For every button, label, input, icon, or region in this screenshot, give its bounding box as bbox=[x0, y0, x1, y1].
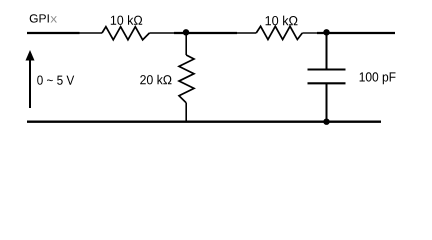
resistor R2 10 kOhm bbox=[256, 26, 302, 39]
label R3 value 20 kOhm bbox=[140, 75, 171, 85]
label GPIx x suffix bbox=[51, 16, 58, 22]
voltage arrow 0~5V shaft bbox=[29, 59, 31, 109]
wire R2 left lead bbox=[237, 32, 256, 34]
label C1 value 100 pF bbox=[360, 72, 396, 84]
wire top right segment bbox=[317, 32, 395, 34]
node C junction dot on bottom rail bbox=[323, 119, 329, 125]
wire bottom rail bbox=[27, 121, 381, 123]
wire R3 bottom lead bbox=[185, 103, 187, 122]
resistor R1 10 kOhm bbox=[102, 27, 149, 40]
wire C1 top lead bbox=[326, 33, 328, 69]
node B junction dot bbox=[323, 29, 329, 35]
capacitor C1 bottom plate bbox=[308, 82, 346, 84]
node A junction dot bbox=[183, 29, 189, 35]
node GPIx input wire bbox=[27, 32, 80, 34]
wire R1 right lead bbox=[149, 32, 174, 34]
label GPIx bbox=[30, 14, 49, 22]
resistor R3 20 kOhm vertical bbox=[179, 55, 194, 103]
wire R1 left lead bbox=[80, 32, 103, 34]
label R2 value 10 kOhm bbox=[266, 16, 298, 26]
wire mid segment bbox=[174, 32, 237, 34]
voltage arrow head bbox=[26, 50, 35, 61]
label R1 value 10 kOhm bbox=[111, 15, 142, 25]
wire C1 bottom lead bbox=[326, 83, 328, 121]
label source voltage 0 ~ 5 V bbox=[37, 76, 74, 85]
wire R2 right lead bbox=[302, 32, 317, 34]
capacitor C1 top plate bbox=[308, 68, 346, 70]
wire R3 top lead bbox=[185, 33, 187, 55]
